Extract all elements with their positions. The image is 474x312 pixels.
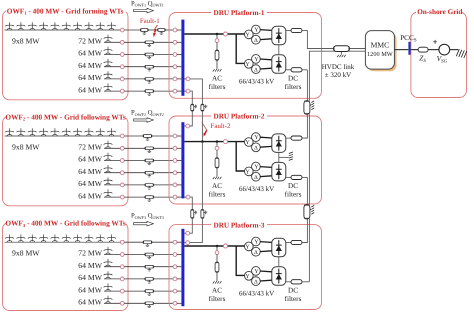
svg-text:DC: DC [288, 75, 298, 83]
wind turbine string WT5 (OWF2) [51, 128, 60, 136]
fault F1 symbol [155, 25, 158, 29]
DC cable platform1-platform2 [304, 101, 310, 115]
svg-text:filters: filters [209, 295, 226, 303]
svg-text:MMC: MMC [371, 41, 390, 50]
platform-side node circle feeder 4 (OWF2) [173, 183, 177, 187]
node circle feeder 5 (OWF2) [120, 195, 124, 199]
node circle feeder 3 (OWF2) [120, 171, 124, 175]
node circle feeder 2 (OWF2) [120, 159, 124, 163]
svg-text:DRU Platform-2: DRU Platform-2 [214, 113, 265, 121]
collector node circle (OWF2) [120, 134, 124, 138]
DC filter F1 (Platform-1) [286, 30, 291, 32]
AC interlink cable A platform2-platform3 [190, 197, 192, 209]
svg-text:Fault-1: Fault-1 [140, 18, 160, 25]
power flow arrow (OWF2) [134, 118, 154, 123]
wind turbine string WT10 (OWF1) [107, 22, 116, 30]
node circle on main line (Platform-3) [224, 244, 228, 248]
svg-text:64 MW: 64 MW [78, 85, 102, 94]
OWF1 collector string line [5, 29, 121, 31]
svg-text:DRU Platform-3: DRU Platform-3 [214, 221, 265, 229]
diode rectifier D2 (Platform-1) [272, 55, 286, 74]
aggregated wind turbine feeder 5 (OWF2) [104, 196, 120, 198]
grid voltage source Vsg [439, 44, 450, 55]
svg-text:66/43/43 kV: 66/43/43 kV [239, 185, 274, 193]
main AC line to transformers (Platform-1) [184, 33, 244, 35]
svg-text:± 320 kV: ± 320 kV [325, 71, 351, 79]
node circle feeder 1 (OWF2) [120, 146, 124, 150]
DC cable platform2-platform3 [304, 205, 310, 220]
power flow arrow (OWF1) [134, 8, 154, 13]
svg-text:filters: filters [285, 295, 302, 303]
AC busbar (Platform-1) [181, 20, 184, 96]
wire Zs to Vsg [428, 49, 439, 51]
wind turbine string WT9 (OWF3) [96, 235, 105, 243]
svg-text:9x8 MW: 9x8 MW [12, 37, 40, 46]
node circle platform2 bus top right [186, 124, 190, 128]
collector export cable segment 2 (OWF1) [157, 29, 165, 32]
svg-text:Y: Y [254, 135, 259, 141]
wind turbine string WT2 (OWF2) [17, 128, 26, 136]
svg-text:1200 MW: 1200 MW [367, 51, 393, 58]
platform-side node circle feeder 5 (OWF3) [173, 301, 177, 305]
feeder cable 2 (OWF1) [124, 54, 145, 56]
feeder cable 1 (OWF3) [124, 254, 145, 256]
aggregated wind turbine feeder 2 (OWF1) [104, 54, 120, 56]
wires transformer T2 to rectifier (Platform-3) [260, 270, 272, 273]
svg-text:64 MW: 64 MW [78, 61, 102, 70]
node circle feeder 4 (OWF1) [120, 77, 124, 81]
HVDC submarine cable [334, 46, 350, 52]
svg-text:66/43/43 kV: 66/43/43 kV [239, 78, 274, 86]
DRU Platform-1 boundary box [169, 13, 322, 99]
wind turbine string WT9 (OWF1) [96, 22, 105, 30]
wind turbine string WT8 (OWF2) [85, 128, 94, 136]
on-shore ground [456, 49, 467, 58]
svg-text:Δ: Δ [254, 175, 258, 181]
platform-side node circle feeder 2 (OWF1) [173, 53, 177, 57]
wires transformer T1 to rectifier (Platform-1) [260, 29, 272, 32]
diode rectifier D2 (Platform-2) [272, 162, 286, 181]
feeder cable 5 (OWF1) [124, 90, 145, 92]
wind turbine string WT3 (OWF1) [28, 22, 37, 30]
node circle platform3 bus top right [186, 231, 190, 235]
node circle feeder 3 (OWF1) [120, 65, 124, 69]
svg-text:64 MW: 64 MW [78, 298, 102, 307]
wind turbine string WT5 (OWF3) [51, 235, 60, 243]
feeder cable 2 (OWF3) [124, 266, 145, 268]
aggregated wind turbine feeder 2 (OWF2) [104, 160, 120, 162]
ground of AC filter (Platform-1) [213, 69, 222, 71]
svg-text:DC: DC [288, 287, 298, 295]
wire split to lower transformer (Platform-3) [236, 246, 244, 275]
wind turbine string WT3 (OWF3) [28, 235, 37, 243]
wire MMC to PCC [394, 49, 408, 51]
feeder cable 4 (OWF2) [124, 184, 145, 186]
wire rectifier D1 to D2 (Platform-2) [278, 152, 280, 162]
AC interlink cable B platform1-platform2 (with fault-2) [190, 79, 203, 104]
svg-text:Fault-2: Fault-2 [211, 123, 231, 130]
svg-text:On-shore Grid: On-shore Grid [417, 8, 462, 16]
svg-text:filters: filters [209, 83, 226, 91]
wire platform1 F2 down to cable 1-2 [306, 70, 308, 101]
collector export cable (OWF3) [124, 241, 143, 243]
svg-text:Y: Y [245, 62, 250, 68]
wind turbine string WT7 (OWF3) [73, 235, 82, 243]
platform-side node circle feeder 1 (OWF1) [173, 40, 177, 44]
svg-text:Y: Y [254, 269, 259, 275]
svg-text:Δ: Δ [254, 279, 258, 285]
svg-text:Δ: Δ [254, 146, 258, 152]
AC filter branch (Platform-1) [216, 34, 218, 39]
aggregated wind turbine feeder 3 (OWF3) [104, 278, 120, 280]
wind turbine string WT1 (OWF3) [5, 235, 14, 243]
node circle platform1 row5 right [186, 77, 190, 81]
svg-text:DC: DC [288, 182, 298, 190]
platform-side node circle feeder 1 (OWF3) [173, 253, 177, 257]
node circle feeder 3 (OWF3) [120, 277, 124, 281]
aggregated wind turbine feeder 3 (OWF1) [104, 66, 120, 68]
diode rectifier D1 (Platform-2) [272, 134, 286, 153]
svg-text:9x8 MW: 9x8 MW [12, 249, 40, 258]
aggregated wind turbine feeder 1 (OWF3) [104, 254, 120, 256]
platform-side node circle feeder 4 (OWF3) [173, 289, 177, 293]
svg-text:AC: AC [212, 75, 222, 83]
wire rectifier D1 to D2 (Platform-1) [278, 45, 280, 55]
diode rectifier D1 (Platform-1) [272, 26, 286, 45]
wire PCC to Zs [411, 49, 419, 51]
wire DC pole positive platform1 to HVDC [307, 30, 333, 48]
wind turbine string WT3 (OWF2) [28, 128, 37, 136]
node circle feeder 1 (OWF3) [120, 253, 124, 257]
wire DC return to HVDC [309, 51, 333, 100]
diode rectifier D2 (Platform-3) [272, 267, 286, 286]
AC busbar (Platform-3) [181, 229, 184, 306]
svg-text:AC: AC [212, 182, 222, 190]
wire platform2 F2 down to cable 2-3 [306, 177, 308, 204]
ground of HVDC cable [340, 52, 342, 55]
main AC line to transformers (Platform-2) [184, 141, 244, 143]
aggregated wind turbine feeder 4 (OWF2) [104, 184, 120, 186]
wind turbine string WT5 (OWF1) [51, 22, 60, 30]
svg-text:64 MW: 64 MW [78, 179, 102, 188]
platform-side node circle feeder 2 (OWF3) [173, 265, 177, 269]
svg-text:Δ: Δ [254, 250, 258, 256]
aggregated wind turbine feeder 1 (OWF2) [104, 147, 120, 149]
feeder cable 3 (OWF3) [124, 278, 145, 280]
wind turbine string WT7 (OWF1) [73, 22, 82, 30]
wires transformer T1 to rectifier (Platform-3) [260, 241, 272, 244]
DC filter F1 (Platform-2) [286, 137, 291, 139]
wind turbine string WT8 (OWF1) [85, 22, 94, 30]
wind turbine string WT4 (OWF3) [39, 235, 48, 243]
feeder cable 4 (OWF3) [124, 290, 145, 292]
node circle platform2 row6 right [186, 195, 190, 199]
wind turbine string WT10 (OWF2) [107, 128, 116, 136]
PCC busbar [408, 42, 410, 55]
ground of AC filter (Platform-3) [213, 281, 222, 283]
grid impedance Zs [418, 47, 428, 52]
wind turbine string WT6 (OWF2) [62, 128, 71, 136]
node circle platform1 row6 right [186, 89, 190, 93]
wire split to lower transformer (Platform-1) [236, 34, 244, 63]
collector node circle (OWF3) [120, 240, 124, 244]
junction AC-filter tap (Platform-1) [216, 33, 219, 36]
node circle feeder 4 (OWF3) [120, 289, 124, 293]
svg-text:66/43/43 kV: 66/43/43 kV [239, 290, 274, 298]
junction AC-filter tap (Platform-3) [216, 245, 219, 248]
svg-text:64 MW: 64 MW [78, 73, 102, 82]
platform-side node circle feeder 2 (OWF2) [173, 159, 177, 163]
wire Vsg to ground [450, 49, 459, 51]
DC filter F1 (Platform-3) [286, 242, 291, 244]
wind turbine string WT4 (OWF2) [39, 128, 48, 136]
svg-text:72 MW: 72 MW [78, 249, 102, 258]
collector export cable (OWF2) [124, 135, 143, 137]
wind turbine string WT9 (OWF2) [96, 128, 105, 136]
OWF2 collector string line [5, 135, 121, 137]
wind turbine string WT1 (OWF2) [5, 128, 14, 136]
platform-side node circle feeder 5 (OWF2) [173, 195, 177, 199]
DRU Platform-3 boundary box [169, 225, 322, 310]
feeder cable 2 (OWF2) [124, 160, 145, 162]
svg-text:64 MW: 64 MW [78, 191, 102, 200]
platform-side node circle feeder 4 (OWF1) [173, 77, 177, 81]
wind turbine string WT2 (OWF3) [17, 235, 26, 243]
node circle feeder 1 (OWF1) [120, 40, 124, 44]
node circle feeder 2 (OWF1) [120, 53, 124, 57]
svg-text:filters: filters [285, 83, 302, 91]
svg-text:Y: Y [245, 244, 250, 250]
main AC line to transformers (Platform-3) [184, 245, 244, 247]
wind turbine string WT2 (OWF1) [17, 22, 26, 30]
node circle feeder 5 (OWF3) [120, 301, 124, 305]
feeder cable 5 (OWF2) [124, 196, 145, 198]
transformer T2 66/43/43 kV (Platform-1) [244, 55, 260, 74]
wind turbine string WT7 (OWF2) [73, 128, 82, 136]
svg-text:Y: Y [245, 140, 250, 146]
transformer T1 66/43/43 kV (Platform-3) [244, 237, 260, 256]
svg-text:Y: Y [254, 57, 259, 63]
platform-side node circle feeder 3 (OWF1) [173, 65, 177, 69]
feeder cable 1 (OWF2) [124, 147, 145, 149]
node circle feeder 5 (OWF1) [120, 89, 124, 93]
DC filter F2 (Platform-1) [286, 69, 291, 71]
svg-text:Y: Y [245, 32, 250, 38]
feeder cable 4 (OWF1) [124, 78, 145, 80]
collector export cable segment 1 (OWF1) [124, 29, 140, 31]
svg-text:64 MW: 64 MW [78, 285, 102, 294]
DRU Platform-2 boundary box [169, 116, 322, 204]
svg-text:72 MW: 72 MW [78, 37, 102, 46]
AC filter branch (Platform-2) [216, 142, 218, 147]
aggregated wind turbine feeder 4 (OWF1) [104, 78, 120, 80]
svg-text:9x8 MW: 9x8 MW [12, 143, 40, 152]
AC interlink cable A platform1-platform2 [190, 91, 192, 104]
feeder cable 3 (OWF2) [124, 172, 145, 174]
polarity plus sign [433, 40, 437, 44]
platform-side node circle feeder 5 (OWF1) [173, 89, 177, 93]
aggregated wind turbine feeder 5 (OWF1) [104, 90, 120, 92]
wires transformer T1 to rectifier (Platform-2) [260, 136, 272, 139]
wind turbine string WT6 (OWF1) [62, 22, 71, 30]
wires cable 1-2 to platform2 [302, 114, 307, 138]
transformer T2 66/43/43 kV (Platform-2) [244, 162, 260, 181]
wind turbine string WT10 (OWF3) [107, 235, 116, 243]
svg-text:filters: filters [285, 191, 302, 199]
svg-text:Y: Y [254, 28, 259, 34]
svg-text:Δ: Δ [254, 38, 258, 44]
AC filter branch (Platform-3) [216, 246, 218, 251]
wire rectifier D1 to D2 (Platform-3) [278, 257, 280, 267]
MMC converter block [368, 33, 397, 71]
svg-text:64 MW: 64 MW [78, 155, 102, 164]
OWF3 collector string line [5, 241, 121, 243]
svg-text:DRU Platform-1: DRU Platform-1 [214, 9, 265, 17]
junction AC-filter tap (Platform-2) [216, 140, 219, 143]
wire split to lower transformer (Platform-2) [236, 142, 244, 171]
collector platform-side node circle (OWF1) [173, 28, 177, 32]
svg-text:Y: Y [245, 274, 250, 280]
aggregated wind turbine feeder 1 (OWF1) [104, 41, 120, 43]
node circle platform3 bus right row1 [186, 241, 190, 245]
svg-text:64 MW: 64 MW [78, 167, 102, 176]
aggregated wind turbine feeder 3 (OWF2) [104, 172, 120, 174]
svg-text:Y: Y [254, 240, 259, 246]
fault F2 symbol [202, 122, 208, 131]
svg-text:Y: Y [245, 169, 250, 175]
power flow arrow (OWF3) [134, 221, 154, 226]
midpoint ground (Platform-2) [279, 156, 289, 158]
diode rectifier D1 (Platform-3) [272, 238, 286, 256]
wind turbine string WT4 (OWF1) [39, 22, 48, 30]
node circle on main line (Platform-1) [224, 32, 228, 36]
transformer T1 66/43/43 kV (Platform-2) [244, 133, 260, 152]
collector platform-side node circle (OWF3) [173, 240, 177, 244]
wind turbine string WT8 (OWF3) [85, 235, 94, 243]
wires transformer T2 to rectifier (Platform-2) [260, 166, 272, 169]
wires transformer T2 to rectifier (Platform-1) [260, 58, 272, 61]
aggregated wind turbine feeder 5 (OWF3) [104, 302, 120, 304]
svg-text:AC: AC [212, 287, 222, 295]
wind turbine string WT6 (OWF3) [62, 235, 71, 243]
feeder cable 5 (OWF3) [124, 302, 145, 304]
feeder cable 3 (OWF1) [124, 66, 145, 68]
On-shore Grid boundary box [411, 12, 467, 98]
platform-side node circle feeder 3 (OWF3) [173, 277, 177, 281]
aggregated wind turbine feeder 2 (OWF3) [104, 266, 120, 268]
node circle feeder 4 (OWF2) [120, 183, 124, 187]
svg-text:64 MW: 64 MW [78, 49, 102, 58]
svg-text:Y: Y [254, 165, 259, 171]
HVDC link lines [334, 48, 366, 50]
AC interlink cable B platform2-platform3 [201, 142, 203, 210]
wires cable 2-3 to platform3 [302, 219, 307, 243]
OWF2 boundary box [3, 116, 129, 206]
svg-text:Δ: Δ [254, 67, 258, 73]
transformer T2 66/43/43 kV (Platform-3) [244, 267, 260, 286]
collector node circle (OWF1) [120, 28, 124, 32]
AC busbar (Platform-2) [181, 122, 184, 198]
wind turbine string WT1 (OWF1) [5, 22, 14, 30]
node circle feeder 2 (OWF3) [120, 265, 124, 269]
svg-text:72 MW: 72 MW [78, 143, 102, 152]
transformer T1 66/43/43 kV (Platform-1) [244, 25, 260, 44]
ground of AC filter (Platform-2) [213, 177, 222, 179]
svg-text:filters: filters [209, 191, 226, 199]
DC filter F2 (Platform-3) [286, 281, 291, 283]
svg-text:64 MW: 64 MW [78, 261, 102, 270]
collector platform-side node circle (OWF2) [173, 134, 177, 138]
svg-text:64 MW: 64 MW [78, 273, 102, 282]
DC filter F2 (Platform-2) [286, 176, 291, 178]
feeder cable 1 (OWF1) [124, 41, 145, 43]
platform-side node circle feeder 1 (OWF2) [173, 146, 177, 150]
OWF1 boundary box [3, 10, 129, 100]
svg-text:HVDC link: HVDC link [322, 63, 355, 71]
node circle on main line (Platform-2) [224, 140, 228, 144]
aggregated wind turbine feeder 4 (OWF3) [104, 290, 120, 292]
platform-side node circle feeder 3 (OWF2) [173, 171, 177, 175]
OWF3 boundary box [3, 222, 129, 310]
